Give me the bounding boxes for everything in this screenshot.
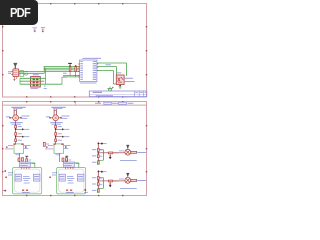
driver label right — [76, 163, 80, 165]
series resistor — [108, 152, 112, 154]
U1 right pin stubs — [97, 63, 98, 65]
left net arrow — [49, 176, 51, 178]
label line below transistor — [50, 122, 63, 124]
feedback loop (green) — [54, 144, 64, 153]
output stage block at x=56.6 : outer wire loop — [57, 168, 86, 194]
center labels — [23, 176, 29, 178]
bypass wire (green) — [102, 150, 104, 161]
resistor R2 — [75, 67, 77, 72]
base/collector junction dots — [49, 117, 51, 119]
chain label — [114, 180, 119, 182]
output filter row offset 0 : supply wire — [97, 142, 99, 164]
feedback loop (green) — [14, 144, 24, 153]
label below loop — [56, 154, 60, 156]
bias resistor lower — [26, 159, 28, 162]
page 2 header divider — [75, 102, 77, 106]
bottom connector — [22, 190, 24, 192]
net label on top wire — [106, 64, 112, 66]
ground arrow — [110, 155, 111, 156]
amplifier channel at x=16.4 : top net label — [11, 106, 25, 108]
U2 label — [8, 71, 12, 73]
resistor right of lamp — [131, 180, 137, 182]
wire loop to output block — [19, 153, 21, 162]
chain end tick — [97, 163, 100, 165]
mic preamp module U2 — [13, 69, 19, 77]
resistor above driver — [18, 158, 20, 161]
page 2 sheet frame — [3, 102, 147, 196]
ground below OK1 — [119, 85, 121, 87]
DIP switch S1 — [31, 77, 41, 87]
output chain wire — [98, 180, 108, 182]
label below lamp — [120, 159, 137, 161]
coil box left — [15, 174, 21, 181]
center labels — [67, 176, 73, 178]
U1 bottom label — [80, 82, 97, 84]
left labels — [8, 172, 13, 174]
divider resistors — [97, 177, 99, 180]
top tap with flag — [98, 143, 101, 145]
coil box right — [34, 174, 40, 181]
net symbol right of block2 — [84, 189, 86, 191]
inner shield loop — [58, 169, 84, 192]
chain end tick — [97, 191, 100, 193]
microcontroller U1 — [80, 60, 97, 82]
left net labels — [48, 145, 53, 147]
wire U1 to OK1 loop — [97, 62, 127, 64]
U1 part name label — [82, 57, 101, 59]
left label — [119, 150, 124, 152]
labels right of divider resistors — [100, 149, 103, 151]
ground tee right — [25, 155, 28, 158]
resistor right of lamp — [131, 151, 137, 153]
wire loop to output block — [59, 153, 61, 162]
ground tee right — [65, 155, 68, 158]
left margin net arrow upper — [4, 170, 6, 172]
left net labels — [8, 145, 13, 147]
lamp (circle-X) — [125, 149, 131, 155]
emitter chain wire — [55, 121, 57, 144]
ground arrow — [110, 183, 111, 184]
wire to lamp — [113, 152, 125, 154]
chain label — [114, 152, 119, 154]
driver transistor (circle symbol) — [13, 115, 19, 121]
left net arrow — [5, 176, 7, 178]
divider resistors — [97, 148, 99, 151]
chain resistors — [15, 125, 17, 128]
page 1 sheet frame — [3, 4, 147, 98]
driver pin stubs — [21, 167, 23, 169]
resistor above driver B — [22, 158, 24, 161]
inner shield loop — [14, 169, 40, 192]
wire bus mic to U1 — [44, 66, 80, 68]
wire to lamp — [113, 180, 125, 182]
U1 pin name texts — [80, 61, 83, 63]
bypass wire (green) — [102, 178, 104, 189]
U2 left pin stubs — [11, 70, 12, 72]
output chain wire — [98, 152, 108, 154]
input connector pins — [53, 109, 55, 115]
page 2 header title text — [95, 102, 101, 104]
R1 R2 labels — [63, 72, 67, 74]
top tap with flag — [98, 171, 101, 173]
ground tick below bus — [44, 85, 46, 87]
series resistor — [108, 180, 112, 182]
labels right of divider resistors — [100, 177, 103, 179]
emitter chain wire — [15, 121, 17, 144]
U1 left pin stubs — [78, 63, 79, 65]
driver transistor (circle symbol) — [53, 115, 59, 121]
capacitor C1 (green) — [20, 71, 24, 77]
chain resistors — [55, 125, 57, 128]
wire driver to loop right — [30, 162, 35, 164]
wire vertical joins — [43, 67, 45, 74]
driver IC — [64, 162, 75, 167]
lamp top symbol — [126, 172, 129, 174]
branch taps with net flags — [55, 129, 57, 131]
left label — [119, 178, 124, 180]
lamp top symbol — [126, 144, 129, 146]
page 2 header band line — [3, 104, 147, 106]
output filter row offset 28.1 : supply wire — [97, 170, 99, 192]
bottom connector — [66, 190, 68, 192]
bias resistor lower — [66, 159, 68, 162]
S1 value label — [31, 88, 39, 90]
power flag cluster B — [42, 28, 44, 31]
driver IC — [20, 162, 31, 167]
junction dots — [98, 180, 100, 182]
transistor Q5 above title block — [108, 88, 113, 90]
base/collector junction dots — [9, 117, 11, 119]
coil box left — [59, 174, 65, 181]
wire driver to loop right — [74, 162, 79, 164]
OK1 ref label — [117, 72, 122, 74]
driver label right — [32, 163, 36, 165]
label below lamp — [120, 188, 137, 190]
branch taps with net flags — [15, 129, 16, 131]
resistor R1 — [69, 67, 71, 72]
U2 bottom pins — [13, 77, 15, 79]
output stage block at x=12.6 : outer wire loop — [13, 168, 42, 194]
title block texts — [93, 91, 102, 93]
microphone MK1 — [13, 63, 17, 69]
pullup network junction T — [68, 63, 72, 64]
junction dots — [98, 152, 100, 154]
net label below — [62, 76, 66, 78]
driver pin stubs — [65, 167, 67, 169]
ground under U2 — [13, 79, 15, 81]
OK1 pin labels right — [125, 77, 133, 79]
node labels near C1 — [25, 71, 28, 73]
input connector pins — [13, 109, 15, 115]
optocoupler OK1 — [116, 75, 124, 84]
PDF badge — [0, 0, 38, 25]
resistor above driver B — [66, 158, 68, 161]
left labels — [52, 172, 57, 174]
wire DIP crossing (over box) — [20, 77, 46, 79]
amplifier channel at x=56.4 : top net label — [51, 106, 66, 108]
lamp (circle-X) — [125, 177, 131, 183]
label line below transistor — [10, 122, 23, 124]
transistor labels — [46, 116, 50, 118]
coil box right — [78, 174, 84, 181]
R pin stubs down — [69, 72, 71, 76]
title block page 1 — [89, 91, 147, 97]
label below loop — [16, 154, 20, 156]
power flag cluster A — [34, 29, 36, 31]
resistor above driver — [62, 158, 64, 161]
transistor labels — [6, 116, 10, 118]
left margin net arrow lower — [4, 189, 6, 191]
extra resistor R11 between channels — [43, 142, 45, 146]
